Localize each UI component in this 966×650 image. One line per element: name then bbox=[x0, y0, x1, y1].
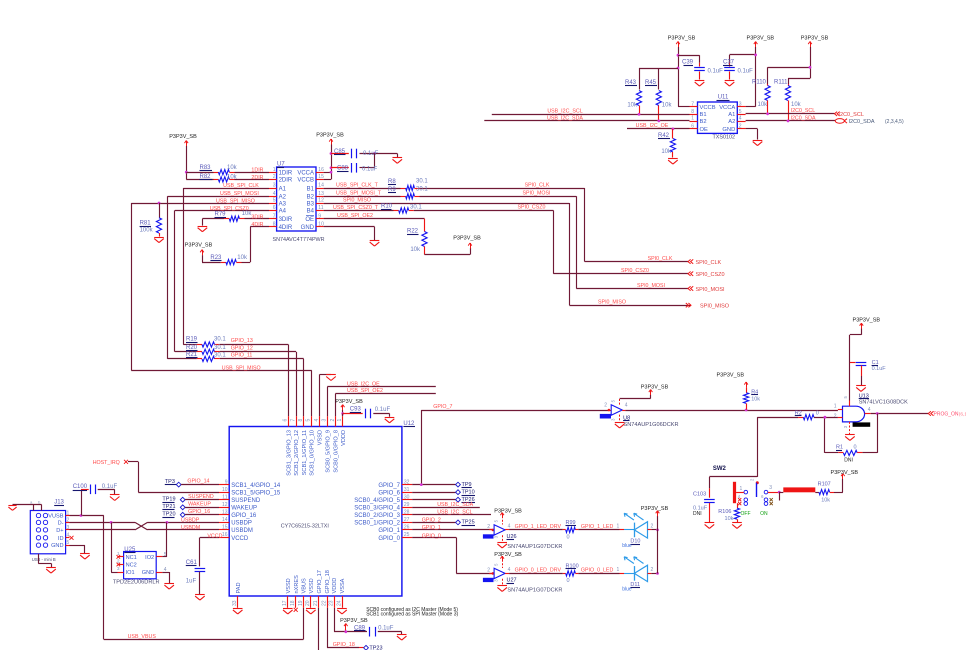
svg-text:USB_SPI_OE2: USB_SPI_OE2 bbox=[347, 388, 383, 394]
svg-text:15: 15 bbox=[222, 525, 228, 531]
U7 pins right bbox=[316, 167, 324, 228]
svg-text:10k: 10k bbox=[627, 102, 638, 108]
U27 power bbox=[494, 552, 522, 568]
svg-text:USB_VBUS: USB_VBUS bbox=[128, 634, 157, 640]
wire IO1 bbox=[111, 522, 117, 572]
svg-text:SCB1_0/GPIO_10: SCB1_0/GPIO_10 bbox=[309, 430, 315, 476]
junction bbox=[638, 113, 641, 116]
svg-text:SCB1_3/GPIO_13: SCB1_3/GPIO_13 bbox=[286, 430, 292, 476]
svg-text:U7: U7 bbox=[277, 162, 285, 168]
svg-text:P3P3V_SB: P3P3V_SB bbox=[185, 243, 213, 249]
svg-text:3DIR: 3DIR bbox=[279, 217, 293, 223]
svg-text:GND: GND bbox=[722, 127, 735, 133]
U11 pin names bbox=[700, 105, 736, 133]
wire GPIO_16 bbox=[185, 509, 219, 515]
svg-text:5: 5 bbox=[739, 109, 742, 115]
svg-text:28: 28 bbox=[404, 510, 410, 516]
svg-text:4: 4 bbox=[508, 524, 511, 530]
junction bbox=[787, 120, 790, 123]
resistor R19 bbox=[183, 337, 226, 348]
ground (U12 VSSD top) bbox=[326, 375, 336, 381]
J13 shield top bbox=[13, 500, 42, 511]
svg-text:10k: 10k bbox=[410, 247, 421, 253]
svg-text:B1: B1 bbox=[700, 112, 707, 118]
LED D10 bbox=[620, 513, 658, 549]
offpage I2C0_SCL bbox=[835, 112, 864, 118]
svg-text:VCCB: VCCB bbox=[297, 178, 314, 184]
svg-text:USBDP: USBDP bbox=[181, 518, 200, 524]
svg-text:VSSD: VSSD bbox=[309, 578, 315, 593]
resistor R2 bbox=[795, 410, 819, 419]
nc ID pin bbox=[70, 536, 74, 540]
SW2 contact 1 bbox=[736, 486, 748, 494]
svg-text:J13: J13 bbox=[54, 500, 64, 506]
svg-text:14: 14 bbox=[318, 183, 324, 189]
svg-text:SCB1_2/GPIO_12: SCB1_2/GPIO_12 bbox=[294, 430, 300, 476]
svg-text:16: 16 bbox=[222, 532, 228, 538]
J13 pin stubs bbox=[66, 510, 70, 546]
svg-text:2: 2 bbox=[487, 524, 490, 530]
svg-text:C39: C39 bbox=[682, 60, 694, 66]
wire GPIO_1 bbox=[412, 525, 492, 531]
svg-text:2: 2 bbox=[651, 567, 654, 573]
junction bbox=[677, 54, 680, 57]
nc NC2 bbox=[117, 563, 121, 567]
resistor R23 bbox=[210, 255, 248, 265]
wire USB_VBUS bbox=[104, 608, 304, 640]
svg-text:6: 6 bbox=[691, 124, 694, 130]
svg-text:R110: R110 bbox=[752, 79, 767, 85]
svg-text:USB - mini B: USB - mini B bbox=[32, 557, 56, 562]
svg-text:4: 4 bbox=[625, 403, 628, 409]
svg-text:GPIO_0: GPIO_0 bbox=[422, 534, 441, 540]
svg-text:32: 32 bbox=[404, 479, 410, 485]
svg-text:P3P3V_SB: P3P3V_SB bbox=[335, 399, 363, 405]
svg-text:GPIO_16: GPIO_16 bbox=[188, 509, 210, 515]
junction bbox=[876, 412, 879, 415]
wire USB_SPI_MISO long bbox=[131, 366, 311, 417]
wire GPIO_0 bbox=[412, 534, 492, 574]
svg-text:3: 3 bbox=[769, 485, 772, 491]
buffer U26 bbox=[483, 519, 563, 550]
svg-text:1DIR: 1DIR bbox=[251, 167, 263, 173]
ground (VSSA) bbox=[337, 609, 347, 614]
resistor R1 bbox=[836, 444, 862, 463]
wire to R43/R45 tops bbox=[639, 68, 678, 90]
svg-text:3: 3 bbox=[273, 183, 276, 189]
svg-text:P3P3V_SB: P3P3V_SB bbox=[494, 552, 522, 558]
U13 power bbox=[850, 317, 881, 406]
svg-text:B2: B2 bbox=[307, 195, 315, 201]
resistor R43 bbox=[625, 80, 642, 115]
svg-text:OFF: OFF bbox=[741, 511, 751, 517]
svg-text:0.1uF: 0.1uF bbox=[872, 366, 887, 372]
svg-text:USB_SPI_MISO: USB_SPI_MISO bbox=[222, 366, 261, 372]
svg-text:SCB1_5/GPIO_15: SCB1_5/GPIO_15 bbox=[231, 491, 281, 497]
switch SW2 label bbox=[713, 466, 727, 472]
svg-text:0: 0 bbox=[854, 444, 857, 450]
power P3P3V_SB (U12 VDDD bottom) bbox=[334, 608, 368, 632]
wire GPIO_7 route bbox=[412, 404, 608, 484]
U8 power bbox=[620, 384, 669, 405]
wire R2 row bbox=[757, 417, 838, 477]
svg-text:SN74AUP1G07DCKR: SN74AUP1G07DCKR bbox=[507, 544, 562, 550]
junction bbox=[344, 630, 347, 633]
buffer U27 bbox=[483, 563, 563, 594]
svg-text:R106: R106 bbox=[718, 509, 731, 515]
testpoint TP3 bbox=[165, 479, 181, 487]
IC U11 TXS0102 box bbox=[698, 95, 738, 141]
capacitor C93 bbox=[343, 406, 391, 418]
svg-text:R79: R79 bbox=[215, 212, 227, 218]
wire GPIO_0_LED_DRV bbox=[505, 568, 563, 574]
svg-text:USBDM: USBDM bbox=[181, 525, 200, 531]
U25 pins right bbox=[156, 552, 167, 573]
U11 pins left bbox=[690, 101, 698, 129]
svg-text:10: 10 bbox=[222, 487, 228, 493]
power P3P3V_SB (R22) bbox=[425, 236, 482, 255]
resistor R79 bbox=[202, 211, 269, 226]
junction (SW2 common) bbox=[749, 478, 758, 497]
wire pullup feed bbox=[768, 47, 811, 84]
testpoint TP23 bbox=[364, 645, 383, 650]
svg-text:10k: 10k bbox=[662, 102, 673, 108]
ground (R106) bbox=[732, 523, 742, 529]
svg-text:9: 9 bbox=[225, 479, 228, 485]
testpoint TP9 bbox=[456, 482, 472, 488]
wire USB_SPI_CLK bbox=[183, 183, 269, 345]
svg-text:DNI: DNI bbox=[693, 511, 702, 517]
J13 contacts bbox=[36, 513, 47, 547]
svg-text:TP10: TP10 bbox=[462, 490, 475, 496]
U11 pins right bbox=[737, 101, 745, 129]
svg-text:P3P3V_SB: P3P3V_SB bbox=[316, 133, 344, 139]
wire SW2 top bbox=[709, 477, 757, 489]
svg-text:SPI0_MOSI: SPI0_MOSI bbox=[637, 283, 665, 289]
ground (C89) bbox=[397, 632, 407, 640]
ground (C1) bbox=[856, 386, 866, 392]
wire row 2DIR bbox=[186, 179, 269, 181]
J13 pin names bbox=[48, 514, 64, 550]
svg-text:SCB1_4/GPIO_14: SCB1_4/GPIO_14 bbox=[231, 483, 281, 489]
IC U7 box bbox=[273, 162, 325, 243]
svg-text:A1: A1 bbox=[279, 186, 287, 192]
svg-text:SPI0_MOSI: SPI0_MOSI bbox=[523, 191, 551, 197]
ground (U25) bbox=[164, 584, 174, 590]
wire USB_SPI_OE2 row bbox=[335, 388, 435, 416]
U12 left pin names bbox=[231, 483, 281, 542]
junction bbox=[754, 54, 757, 57]
note SCB1 bbox=[366, 612, 458, 618]
svg-text:GND: GND bbox=[142, 570, 154, 576]
resistor R9 bbox=[388, 187, 428, 199]
wire USB_I2C_OE row bbox=[327, 381, 436, 416]
label SPI0_CLK mid bbox=[525, 182, 550, 188]
svg-text:2: 2 bbox=[604, 403, 607, 409]
svg-text:SPI0_CLK: SPI0_CLK bbox=[525, 182, 550, 188]
svg-text:11: 11 bbox=[318, 205, 323, 211]
svg-text:GPIO_12: GPIO_12 bbox=[231, 345, 253, 351]
svg-text:6: 6 bbox=[273, 205, 276, 211]
svg-text:4DIR: 4DIR bbox=[251, 222, 263, 228]
wire I2C0_SCL bbox=[746, 108, 835, 114]
svg-text:D-: D- bbox=[58, 521, 64, 527]
wire GPIO_18 bbox=[327, 608, 364, 648]
svg-text:OE: OE bbox=[305, 217, 314, 223]
junction bbox=[185, 171, 188, 174]
wire U12 VSSD top bbox=[320, 374, 332, 416]
junction bbox=[608, 409, 611, 412]
junction bbox=[110, 521, 169, 524]
wire SUSPEND bbox=[185, 494, 219, 500]
svg-text:B4: B4 bbox=[307, 209, 315, 215]
svg-text:7: 7 bbox=[273, 213, 276, 219]
svg-text:P3P3V_SB: P3P3V_SB bbox=[668, 36, 696, 42]
resistor R42 bbox=[658, 129, 676, 158]
svg-text:USB_I2C_SCL: USB_I2C_SCL bbox=[437, 510, 472, 516]
svg-text:30.1: 30.1 bbox=[410, 205, 422, 211]
wire GPIO_1_LED bbox=[578, 524, 653, 530]
wire GPIO_6 bbox=[412, 492, 455, 494]
svg-text:SPI0_MOSI: SPI0_MOSI bbox=[696, 287, 726, 293]
svg-text:21: 21 bbox=[313, 600, 319, 606]
svg-text:SN74AVC4T774PWR: SN74AVC4T774PWR bbox=[273, 237, 325, 243]
svg-text:USB_SPI_MOSI_T: USB_SPI_MOSI_T bbox=[336, 190, 382, 196]
wire WAKEUP bbox=[185, 502, 219, 508]
svg-text:USB_I2C_OE: USB_I2C_OE bbox=[347, 381, 380, 387]
U12 right pin stubs bbox=[402, 479, 412, 538]
svg-text:R107: R107 bbox=[818, 481, 831, 487]
svg-text:A3: A3 bbox=[279, 201, 287, 207]
J13 shield bottom bbox=[38, 554, 51, 567]
resistor R111 bbox=[774, 79, 802, 121]
label SPI0_CSZ0 mid bbox=[518, 205, 546, 211]
capacitor C39 bbox=[682, 60, 723, 80]
U7 pin names left bbox=[279, 170, 293, 231]
svg-text:8: 8 bbox=[298, 419, 304, 422]
svg-text:GPIO_1_LED_DRV: GPIO_1_LED_DRV bbox=[515, 524, 562, 530]
svg-text:P3P3V_SB: P3P3V_SB bbox=[801, 36, 829, 42]
svg-text:HOST_IRQ: HOST_IRQ bbox=[93, 460, 120, 466]
power P3P3V_SB (U11 VCCB) bbox=[668, 36, 696, 48]
testpoint TP19 bbox=[162, 497, 185, 503]
wire crossover bbox=[135, 522, 148, 530]
U13 black bar bbox=[853, 422, 871, 426]
svg-text:GPIO_7: GPIO_7 bbox=[378, 483, 400, 489]
U25 pins left bbox=[117, 551, 124, 573]
svg-text:TPD2E2U06DRLR: TPD2E2U06DRLR bbox=[113, 579, 160, 585]
svg-text:SUSPEND: SUSPEND bbox=[188, 494, 214, 500]
svg-text:GPIO_13: GPIO_13 bbox=[231, 338, 253, 344]
wire GPIO_5 bbox=[412, 499, 455, 501]
svg-text:13: 13 bbox=[318, 191, 324, 197]
svg-text:USBDM: USBDM bbox=[231, 528, 253, 534]
svg-text:10k: 10k bbox=[758, 102, 769, 108]
resistor R45 bbox=[645, 80, 672, 121]
svg-text:SN74LVC1G08DCK: SN74LVC1G08DCK bbox=[859, 399, 908, 405]
svg-text:D10: D10 bbox=[630, 539, 640, 545]
capacitor C37 bbox=[723, 60, 753, 80]
wire GPIO_2 bbox=[412, 518, 455, 524]
SW2 contact 3 bbox=[764, 485, 779, 494]
wire USBDP bbox=[70, 518, 220, 524]
label ON bbox=[760, 511, 768, 517]
svg-text:USB_SPI_CLK: USB_SPI_CLK bbox=[223, 183, 259, 189]
svg-text:U11: U11 bbox=[718, 95, 729, 101]
svg-text:USB_SPI_MOSI: USB_SPI_MOSI bbox=[220, 191, 259, 197]
offpage PROG_ON bbox=[928, 411, 966, 417]
junction bbox=[656, 529, 659, 532]
ground (J13 GND) bbox=[80, 554, 90, 560]
svg-text:ON: ON bbox=[760, 511, 768, 517]
wire IO2 bbox=[162, 522, 167, 557]
label 2DIR bbox=[251, 175, 263, 181]
offpage SPI0_MISO bbox=[686, 303, 730, 310]
resistor R81 bbox=[140, 203, 162, 237]
svg-text:SW2: SW2 bbox=[713, 466, 727, 472]
svg-text:GPIO_0: GPIO_0 bbox=[378, 536, 400, 542]
wire U8 out bbox=[622, 410, 838, 412]
label OFF bbox=[741, 511, 751, 517]
svg-text:10k: 10k bbox=[821, 497, 830, 503]
offpage SPI0_CLK bbox=[688, 259, 722, 266]
svg-text:100k: 100k bbox=[140, 227, 154, 233]
svg-text:1: 1 bbox=[617, 567, 620, 573]
svg-text:10k: 10k bbox=[661, 149, 672, 155]
power P3P3V_SB (R23) bbox=[185, 243, 213, 256]
U12 bottom pin stubs bbox=[232, 596, 342, 608]
svg-text:WAKEUP: WAKEUP bbox=[188, 502, 211, 508]
svg-text:P3P3V_SB: P3P3V_SB bbox=[747, 36, 775, 42]
svg-text:blue: blue bbox=[622, 587, 632, 593]
wire OE row bbox=[324, 213, 425, 219]
wire SPI0_CSZ0 route bbox=[414, 210, 688, 274]
svg-text:16: 16 bbox=[318, 167, 324, 173]
svg-text:18: 18 bbox=[290, 600, 296, 606]
wire VCCD bbox=[200, 533, 223, 566]
svg-text:GND: GND bbox=[51, 543, 63, 549]
wire USB_I2C_OE bbox=[627, 123, 690, 129]
svg-text:R45: R45 bbox=[645, 80, 657, 86]
testpoint TP21 bbox=[162, 504, 185, 510]
svg-text:P3P3V_SB: P3P3V_SB bbox=[641, 384, 669, 390]
svg-text:nXRES: nXRES bbox=[294, 575, 300, 594]
svg-text:1: 1 bbox=[273, 167, 276, 173]
svg-text:30.1: 30.1 bbox=[214, 352, 226, 358]
svg-text:5: 5 bbox=[273, 198, 276, 204]
wire B2 USB_SPI_MOSI_T bbox=[324, 190, 401, 196]
svg-text:SCB0_1/GPIO_2: SCB0_1/GPIO_2 bbox=[354, 521, 400, 527]
svg-text:3DIR: 3DIR bbox=[251, 214, 263, 220]
junction bbox=[824, 416, 827, 419]
wire PROG_ON bbox=[871, 413, 929, 415]
svg-text:SPI0_CLK: SPI0_CLK bbox=[648, 256, 673, 262]
svg-text:7: 7 bbox=[290, 419, 296, 422]
svg-text:10k: 10k bbox=[227, 165, 238, 171]
wire GPIO_17 bbox=[318, 608, 320, 650]
svg-text:4: 4 bbox=[868, 407, 871, 413]
wire USB_SPI_MISO bbox=[131, 199, 269, 371]
wire SPI0_MOSI route bbox=[420, 196, 689, 289]
svg-text:OE: OE bbox=[700, 127, 709, 133]
wire USB_I2C_SDA row bbox=[412, 502, 480, 508]
svg-text:SPI0_MISO: SPI0_MISO bbox=[700, 304, 730, 310]
U12 left pin stubs bbox=[219, 479, 229, 538]
svg-text:R111: R111 bbox=[774, 79, 788, 85]
wire U25 GND bbox=[162, 572, 169, 583]
resistor R106 bbox=[718, 503, 739, 522]
svg-text:P3P3V_SB: P3P3V_SB bbox=[340, 618, 368, 624]
svg-text:19: 19 bbox=[298, 600, 304, 606]
svg-text:24: 24 bbox=[336, 600, 342, 606]
ground (C61) bbox=[195, 595, 205, 601]
svg-text:VCCD: VCCD bbox=[231, 536, 249, 542]
svg-text:13: 13 bbox=[222, 510, 228, 516]
svg-text:GPIO_18: GPIO_18 bbox=[333, 642, 355, 648]
svg-text:11: 11 bbox=[222, 494, 227, 500]
svg-text:VCCA: VCCA bbox=[297, 170, 314, 176]
offpage SPI0_CSZ0 bbox=[688, 272, 725, 279]
capacitor C89 bbox=[354, 625, 402, 636]
svg-text:0.1uF: 0.1uF bbox=[738, 69, 754, 75]
svg-text:R43: R43 bbox=[625, 80, 637, 86]
svg-text:SCB0_4/GPIO_5: SCB0_4/GPIO_5 bbox=[354, 498, 400, 504]
svg-text:27: 27 bbox=[404, 517, 410, 523]
svg-text:3: 3 bbox=[117, 566, 120, 572]
svg-text:P3P3V_SB: P3P3V_SB bbox=[853, 317, 881, 323]
wire I2C0_SDA bbox=[746, 115, 836, 121]
svg-text:(6,10): (6,10) bbox=[959, 412, 966, 418]
wire VUSB bbox=[70, 516, 104, 640]
wire USB_SPI_CSZ0 bbox=[175, 206, 270, 352]
svg-text:GPIO_1: GPIO_1 bbox=[422, 525, 441, 531]
svg-text:SUSPEND: SUSPEND bbox=[231, 498, 261, 504]
ground (VSSD 20) bbox=[306, 609, 316, 614]
testpoint TP25 bbox=[456, 520, 475, 526]
svg-text:(2,3,4,5): (2,3,4,5) bbox=[885, 119, 904, 125]
wire VCCA bbox=[730, 47, 756, 107]
svg-text:GPIO_0_LED_DRV: GPIO_0_LED_DRV bbox=[515, 568, 562, 574]
svg-text:8: 8 bbox=[691, 109, 694, 115]
svg-text:D+: D+ bbox=[56, 528, 63, 534]
svg-text:8: 8 bbox=[273, 221, 276, 227]
label 1DIR bbox=[251, 167, 263, 173]
svg-text:VSSA: VSSA bbox=[340, 578, 346, 593]
resistor R100 bbox=[563, 563, 579, 584]
svg-text:5: 5 bbox=[67, 540, 70, 546]
svg-text:1: 1 bbox=[67, 510, 70, 516]
testpoint TP10 bbox=[456, 490, 475, 496]
junction bbox=[766, 112, 769, 115]
svg-text:VDDD: VDDD bbox=[332, 578, 338, 594]
svg-text:SPI0_MISO: SPI0_MISO bbox=[598, 300, 626, 306]
note SCB0 bbox=[366, 607, 458, 613]
junction bbox=[656, 572, 659, 575]
svg-text:USB_SPI_CSZ0_T: USB_SPI_CSZ0_T bbox=[333, 205, 379, 211]
svg-text:TP25: TP25 bbox=[462, 520, 475, 526]
wire J13 GND bbox=[70, 545, 85, 553]
svg-text:SCB1 configured as SPI Master: SCB1 configured as SPI Master (Mode 3) bbox=[366, 612, 458, 618]
svg-text:2: 2 bbox=[739, 124, 742, 130]
svg-text:GPIO_18: GPIO_18 bbox=[325, 570, 331, 593]
power P3P3V_SB (R83/R82) bbox=[169, 134, 197, 146]
label 3DIR bbox=[251, 214, 263, 220]
svg-text:30.1: 30.1 bbox=[214, 345, 226, 351]
wire HOST_IRQ bbox=[128, 462, 219, 493]
svg-text:I2C0_SCL: I2C0_SCL bbox=[839, 112, 864, 118]
svg-text:VCCD: VCCD bbox=[207, 533, 222, 539]
testpoint TP20 bbox=[162, 512, 185, 518]
